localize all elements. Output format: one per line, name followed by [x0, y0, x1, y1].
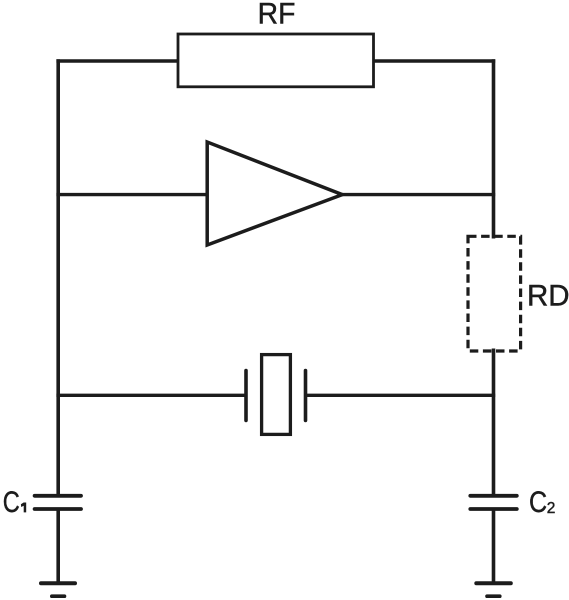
resistor RF [178, 34, 374, 87]
svg-text:RF: RF [258, 0, 296, 31]
capacitor C1: top plate [35, 494, 81, 498]
svg-text:C: C [529, 485, 547, 518]
ground (right): upper bar [476, 581, 511, 585]
wire: left vertical bus (node A, amp input net) [56, 59, 60, 495]
wire: right vertical middle (RD to crystal node to C2) [492, 349, 496, 496]
resistor RD (dashed outline) [468, 236, 521, 351]
svg-text:RD: RD [527, 279, 569, 312]
capacitor C1: bottom plate [35, 507, 81, 511]
wire: right vertical segment C2 to ground [492, 509, 496, 583]
wire: right vertical top (node B to RD) [492, 59, 496, 238]
crystal X1: right plate [304, 371, 308, 421]
label C1 subscript 1 [21, 503, 26, 513]
capacitor C2: bottom plate [470, 507, 517, 511]
wire: top horizontal left (node A to RF) [56, 59, 178, 62]
wire: top horizontal right (RF to node B) [374, 59, 496, 62]
svg-text:2: 2 [547, 500, 556, 517]
crystal X1: left plate [244, 371, 248, 421]
ground (left): lower bar [52, 594, 65, 598]
svg-text:C: C [3, 485, 20, 518]
op-amp U1 (inverting amplifier) [207, 142, 342, 245]
capacitor C2: top plate [470, 494, 517, 498]
wire: crystal left lead [56, 394, 246, 397]
ground (left): upper bar [41, 581, 75, 585]
wire: left vertical segment C1 to ground [56, 509, 60, 583]
wire: amplifier output [340, 193, 495, 196]
wire: crystal right lead [306, 394, 496, 397]
ground (right): lower bar [487, 594, 500, 598]
wire: amplifier input [56, 193, 210, 196]
crystal X1: quartz body [262, 355, 291, 435]
